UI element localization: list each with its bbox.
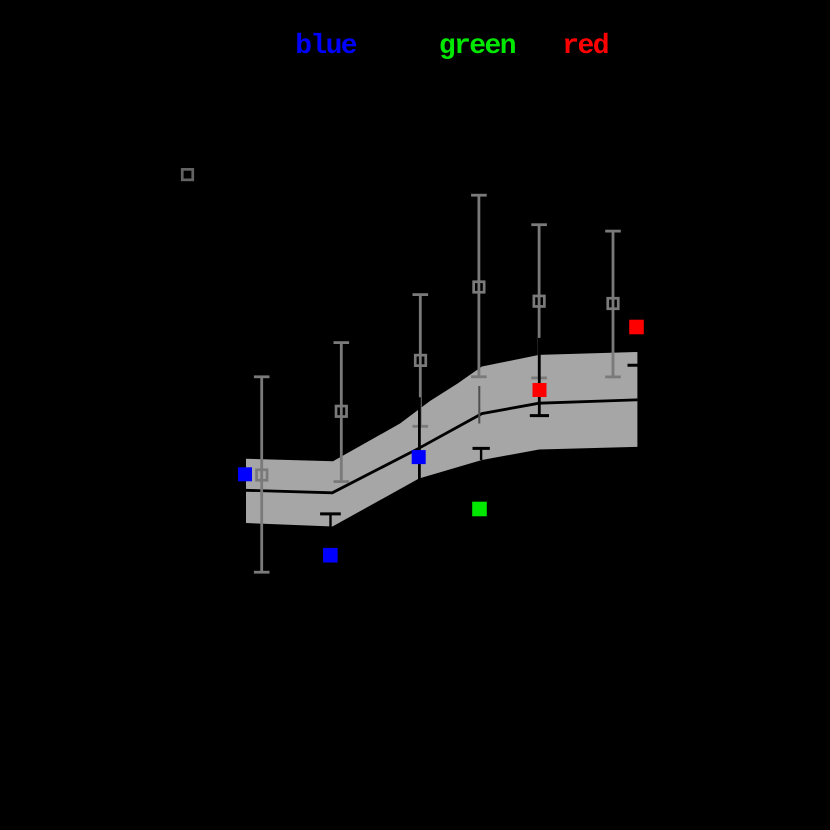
faint dark line (green pt bar) bbox=[478, 386, 480, 424]
blue square 1 bbox=[238, 467, 252, 481]
svg-text:blue: blue bbox=[295, 31, 357, 62]
error bar 2 bbox=[334, 343, 350, 482]
error bar 6 bbox=[605, 231, 621, 377]
svg-text:green: green bbox=[439, 31, 516, 62]
lone open square marker bbox=[182, 169, 193, 180]
red square 2 bbox=[533, 383, 547, 397]
error bar 4 bbox=[471, 195, 487, 377]
black overlay bar (red pt2) bbox=[538, 338, 541, 416]
mean line bbox=[246, 400, 637, 493]
green square bbox=[472, 502, 487, 517]
black overlay bar (blue pt2) bbox=[418, 397, 421, 479]
red square 1 bbox=[629, 320, 644, 335]
error bar 5 bbox=[531, 225, 547, 378]
blue square 2 bbox=[412, 450, 426, 464]
svg-text:red: red bbox=[562, 31, 608, 62]
error bar 3 bbox=[413, 295, 429, 427]
black cap+stub (blue pt3) bbox=[320, 512, 341, 515]
black cap+stub (green pt) bbox=[473, 447, 490, 450]
blue square 3 bbox=[323, 548, 338, 563]
error bar 1 bbox=[254, 377, 270, 572]
confidence band bbox=[246, 352, 637, 527]
black cap (red pt1) bbox=[628, 364, 648, 367]
open square markers on bars bbox=[257, 282, 619, 481]
